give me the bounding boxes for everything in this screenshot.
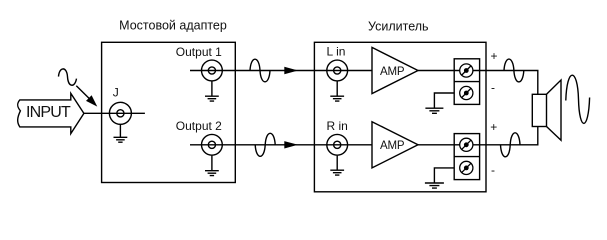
arrowhead (to R in) <box>284 141 298 148</box>
wire: AMP R output to speaker (+) <box>418 127 538 145</box>
svg-text:-: - <box>491 81 495 95</box>
svg-text:Output 1: Output 1 <box>176 45 222 59</box>
signal sine (Output 1 wire) <box>250 59 270 82</box>
screw terminal R+ <box>460 138 473 151</box>
ground (R in) <box>330 156 344 176</box>
wire: L terminal (-) to ground <box>434 93 454 108</box>
svg-text:-: - <box>491 163 495 177</box>
signal sine (R speaker wire, inverted) <box>501 133 521 157</box>
signal sine (Output 2 wire, inverted) <box>255 133 275 156</box>
ground (L in) <box>330 81 344 101</box>
screw terminal L- <box>460 86 473 99</box>
amplifier AMP (L channel) <box>372 47 418 93</box>
terminal block L <box>454 59 479 105</box>
connector J (BNC) <box>109 102 131 124</box>
wire: R terminal (-) to ground <box>434 168 454 183</box>
screw terminal L+ <box>460 64 473 77</box>
svg-text:Мостовой адаптер: Мостовой адаптер <box>119 19 227 33</box>
speaker LS1 cone <box>547 80 562 140</box>
connector R in (BNC) <box>327 134 348 155</box>
signal sine (L speaker wire) <box>504 59 524 82</box>
svg-text:INPUT: INPUT <box>26 104 71 121</box>
arrowhead (to L in) <box>284 67 298 74</box>
svg-text:Output 2: Output 2 <box>176 119 222 133</box>
amplifier AMP (R channel) <box>372 122 418 168</box>
input signal sine <box>59 69 77 85</box>
connector L in (BNC) <box>327 60 348 81</box>
speaker LS1 driver <box>532 94 546 126</box>
svg-text:J: J <box>113 86 119 100</box>
acoustic output sine <box>566 75 590 123</box>
INPUT source block arrow <box>18 93 84 133</box>
connector Output 1 (BNC) <box>202 60 223 81</box>
wire: INPUT tip to connector J <box>84 112 145 114</box>
svg-text:AMP: AMP <box>380 66 405 78</box>
terminal block R <box>454 134 479 180</box>
connector Output 2 (BNC) <box>202 134 223 155</box>
box: amplifier enclosure <box>314 42 486 192</box>
wire: Output 2 rail to R in and AMP input <box>190 144 372 146</box>
ground (Output 1) <box>205 81 219 101</box>
svg-text:R in: R in <box>327 119 348 133</box>
wire: AMP L output to speaker (+) <box>418 71 538 95</box>
ground (J) <box>114 125 128 143</box>
ground (R terminal) <box>425 183 444 188</box>
pointer arrow from sine to input wire <box>76 86 90 100</box>
svg-text:+: + <box>490 49 497 63</box>
svg-text:L in: L in <box>327 45 346 59</box>
svg-text:AMP: AMP <box>380 140 405 152</box>
box: bridge adapter enclosure <box>102 42 236 182</box>
wire: Output 1 rail to L in and AMP input <box>190 70 372 72</box>
svg-text:Усилитель: Усилитель <box>368 20 429 34</box>
ground (L terminal) <box>425 108 443 113</box>
screw terminal R- <box>460 161 473 174</box>
svg-text:+: + <box>490 120 497 134</box>
ground (Output 2) <box>205 156 219 176</box>
